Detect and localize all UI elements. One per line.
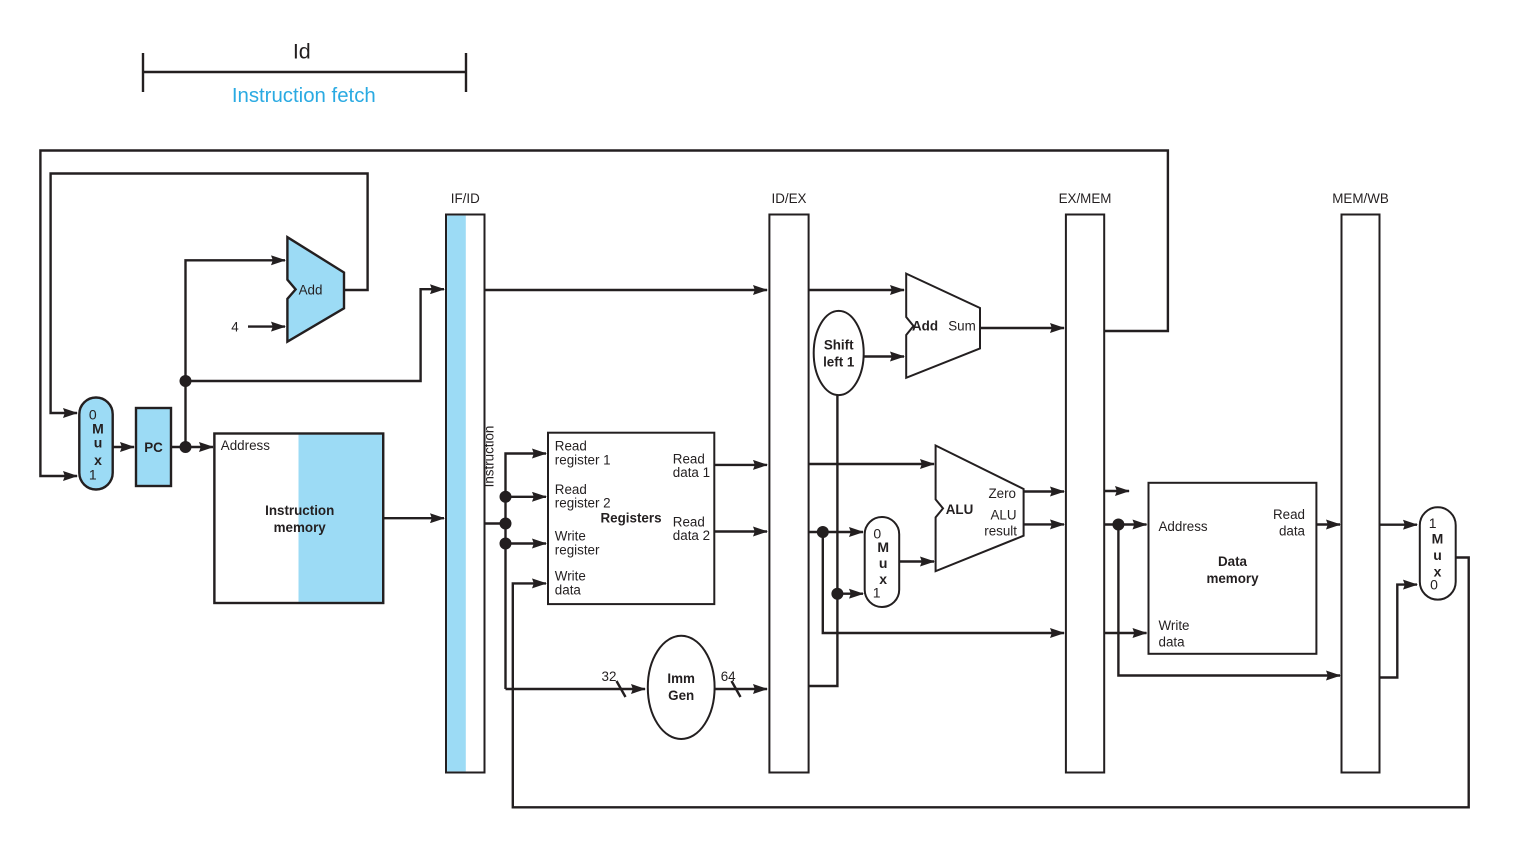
wire EX/MEM write data to Data memory bbox=[1104, 632, 1146, 634]
node ALU result junction bbox=[1112, 519, 1124, 531]
svg-text:0: 0 bbox=[1430, 577, 1438, 593]
ALU bbox=[936, 446, 1024, 572]
mux M1 bbox=[79, 398, 112, 490]
node imm junction bbox=[831, 588, 843, 600]
svg-text:64: 64 bbox=[721, 669, 736, 684]
wire PC up to Add A1 top input bbox=[186, 260, 286, 447]
node PC line junction bbox=[180, 375, 192, 387]
node bus junction instruction bbox=[500, 518, 512, 530]
svg-text:Id: Id bbox=[293, 39, 311, 63]
wire Shift left 1 to Add A2 bottom input bbox=[864, 355, 904, 357]
mux M3 bbox=[1420, 507, 1456, 599]
pipeline register MEM/WB bbox=[1342, 215, 1380, 773]
svg-text:u: u bbox=[879, 555, 888, 571]
bus width slash 32 bbox=[617, 681, 626, 697]
svg-text:Registers: Registers bbox=[600, 511, 661, 526]
wire Mux M2 to ALU bottom input bbox=[899, 560, 934, 562]
svg-text:M: M bbox=[877, 539, 889, 555]
wire ID/EX PC line to Add A2 bbox=[809, 289, 904, 291]
mux M2 bbox=[865, 517, 900, 607]
svg-text:data: data bbox=[555, 582, 582, 597]
svg-text:ALU: ALU bbox=[990, 507, 1016, 522]
wire ALU Zero to EX/MEM bbox=[1024, 490, 1064, 492]
svg-text:u: u bbox=[94, 435, 103, 451]
svg-text:register: register bbox=[555, 542, 600, 557]
svg-text:result: result bbox=[984, 524, 1017, 539]
svg-text:Sum: Sum bbox=[948, 319, 976, 334]
wire ID/EX read data 2 to Mux M2 input 0 bbox=[809, 531, 863, 533]
svg-text:Address: Address bbox=[1159, 519, 1208, 534]
svg-text:MEM/WB: MEM/WB bbox=[1332, 191, 1389, 206]
wire write-back Mux M3 to Registers Write data bbox=[513, 558, 1469, 808]
wire PC to Instruction memory Address bbox=[171, 446, 213, 448]
svg-text:PC: PC bbox=[144, 440, 163, 455]
node bus junction write register bbox=[500, 538, 512, 550]
pipeline register ID/EX bbox=[769, 215, 808, 773]
wire Instruction memory to IF/ID bbox=[383, 517, 444, 519]
wire Read data 1 to ID/EX bbox=[714, 464, 767, 466]
svg-text:32: 32 bbox=[602, 669, 617, 684]
wire 4 to Add A1 bottom input bbox=[248, 325, 285, 327]
wire MEM/WB ALU result to Mux M3 input 0 bbox=[1380, 585, 1418, 678]
node read data 2 junction bbox=[817, 526, 829, 538]
wire EX/MEM zero stub bbox=[1104, 490, 1129, 492]
instruction memory bbox=[214, 434, 383, 604]
svg-text:Write: Write bbox=[1159, 618, 1190, 633]
node PC output junction bbox=[180, 441, 192, 453]
svg-text:data 1: data 1 bbox=[673, 465, 710, 480]
stage bracket line bbox=[143, 53, 466, 92]
wire ID/EX imm to Shift left 1 bbox=[809, 395, 838, 686]
svg-text:IF/ID: IF/ID bbox=[451, 191, 480, 206]
wire Add A2 Sum to EX/MEM bbox=[980, 327, 1064, 329]
svg-text:register 1: register 1 bbox=[555, 452, 611, 467]
svg-text:Address: Address bbox=[221, 438, 270, 453]
svg-text:ALU: ALU bbox=[946, 502, 974, 517]
data memory bbox=[1149, 483, 1317, 654]
bus width slash 64 bbox=[732, 681, 741, 697]
wire read data 2 down to EX/MEM write data bbox=[823, 532, 1064, 633]
svg-text:register 2: register 2 bbox=[555, 496, 611, 511]
wire Read data 2 to ID/EX bbox=[714, 530, 767, 532]
svg-text:ID/EX: ID/EX bbox=[772, 191, 807, 206]
shift left 1 bbox=[814, 311, 864, 395]
wire IF/ID PC line to ID/EX bbox=[485, 289, 768, 291]
wire Imm Gen to ID/EX bbox=[715, 688, 767, 690]
adder A2 (Add Sum) bbox=[906, 274, 980, 378]
register PC bbox=[136, 408, 171, 486]
svg-text:4: 4 bbox=[231, 320, 239, 335]
wire bus to Read register 2 bbox=[506, 496, 547, 498]
svg-text:Zero: Zero bbox=[988, 486, 1016, 501]
wire branch-target feedback (EX/MEM to Mux M1 input 1) bbox=[40, 151, 1168, 477]
wire EX/MEM ALU result to Data memory Address bbox=[1104, 523, 1146, 525]
svg-text:data 2: data 2 bbox=[673, 528, 710, 543]
svg-text:1: 1 bbox=[89, 467, 97, 483]
wire ALU result to EX/MEM bbox=[1024, 523, 1064, 525]
svg-text:Imm: Imm bbox=[667, 671, 695, 686]
wire Data memory read data to MEM/WB bbox=[1316, 523, 1340, 525]
svg-text:left 1: left 1 bbox=[823, 355, 855, 370]
svg-text:M: M bbox=[1432, 531, 1444, 547]
svg-text:Instruction: Instruction bbox=[482, 426, 497, 488]
svg-text:EX/MEM: EX/MEM bbox=[1059, 191, 1112, 206]
svg-text:Shift: Shift bbox=[824, 338, 854, 353]
svg-text:1: 1 bbox=[873, 585, 881, 601]
registers block bbox=[548, 433, 714, 604]
pipeline register IF/ID bbox=[446, 215, 485, 773]
wire ALU result bypass to MEM/WB bbox=[1118, 525, 1340, 676]
adder A1 (Add) bbox=[287, 237, 344, 341]
wire imm to Mux M2 input 1 bbox=[837, 593, 863, 595]
svg-text:Read: Read bbox=[1273, 507, 1305, 522]
wire PC+4 feedback (Add A1 output to Mux M1 input 0) bbox=[51, 174, 368, 414]
wire bus to Imm Gen bbox=[506, 688, 646, 690]
wire IF/ID instruction to bus bbox=[485, 522, 506, 524]
svg-text:1: 1 bbox=[1429, 515, 1437, 531]
wire PC value to IF/ID bbox=[186, 289, 445, 381]
svg-text:Add: Add bbox=[299, 283, 323, 298]
svg-text:Instruction: Instruction bbox=[265, 503, 334, 518]
svg-text:Data: Data bbox=[1218, 554, 1248, 569]
node bus junction read register 2 bbox=[500, 491, 512, 503]
svg-text:data: data bbox=[1159, 635, 1186, 650]
wire Mux M1 to PC bbox=[113, 446, 134, 448]
svg-text:memory: memory bbox=[274, 520, 327, 535]
wire MEM/WB to Mux M3 input 1 bbox=[1380, 524, 1418, 526]
svg-text:u: u bbox=[1433, 547, 1442, 563]
wire bus to Write register bbox=[506, 542, 547, 544]
imm gen bbox=[648, 636, 715, 739]
wire ID/EX read data 1 to ALU bbox=[809, 463, 934, 465]
svg-text:Add: Add bbox=[912, 319, 938, 334]
wire instruction bus spine bbox=[506, 454, 547, 690]
pipeline register EX/MEM bbox=[1066, 215, 1104, 773]
svg-text:Gen: Gen bbox=[668, 688, 694, 703]
svg-text:data: data bbox=[1279, 524, 1306, 539]
svg-text:Instruction fetch: Instruction fetch bbox=[232, 85, 376, 107]
svg-text:memory: memory bbox=[1206, 571, 1259, 586]
